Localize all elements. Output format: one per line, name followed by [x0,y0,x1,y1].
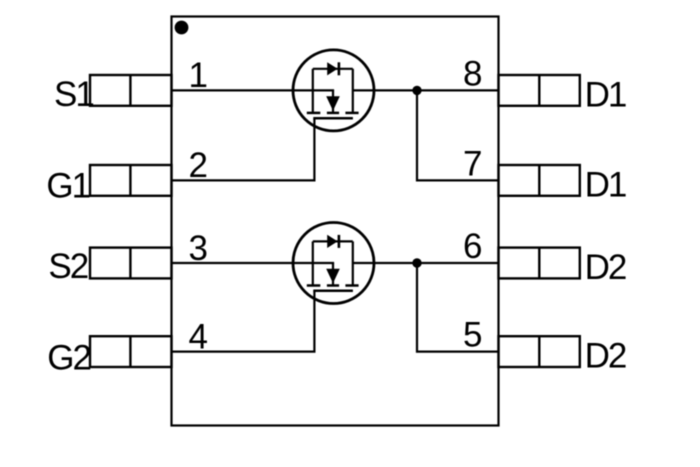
svg-text:2: 2 [189,146,208,185]
Q1 source stub / diode anode leg [312,69,314,113]
wire junction to pin7 [417,90,499,180]
svg-text:S1: S1 [54,75,93,114]
Q1 body diode rail [313,68,353,70]
Q2 body diode rail [313,240,353,242]
Q1 channel segments [307,112,321,115]
svg-text:D2: D2 [585,337,626,376]
svg-text:S2: S2 [48,247,87,286]
Q2 channel segments [307,284,321,287]
node junction pins 6-5 [412,258,421,267]
svg-text:4: 4 [189,317,208,356]
wire Q2 drain to pin6 [353,262,499,264]
pin 1 indicator dot [175,21,189,35]
Q2 envelope circle [293,223,374,304]
Q2 body diode cathode bar [338,235,341,248]
wire pin1 source to Q1 [172,89,335,91]
svg-text:7: 7 [463,144,482,183]
Q1 gate bar [313,117,353,120]
Q1 body connection with arrow [332,90,334,113]
svg-text:D2: D2 [585,248,626,287]
pin box D1 pin7 [499,165,580,196]
Q1 envelope circle [293,50,374,131]
pin box D2 pin5 [499,336,580,367]
Q2 gate bar [313,290,353,293]
svg-text:G2: G2 [47,338,90,377]
wire junction to pin5 [417,263,499,352]
svg-text:3: 3 [189,229,208,268]
wire pin2 gate to Q1 [172,118,315,180]
svg-text:5: 5 [463,316,482,355]
pin box S1 pin1 [90,75,172,106]
wire pin3 source to Q2 [172,262,335,264]
svg-text:D1: D1 [585,75,626,114]
package outline SO-8 [172,17,499,426]
svg-text:6: 6 [463,227,482,266]
svg-text:8: 8 [463,54,482,93]
pin box D2 pin6 [499,248,580,279]
Q2 drain stub / diode cathode leg [352,241,354,285]
Q1 body diode triangle [327,62,337,75]
pin box S2 pin3 [90,248,172,279]
wire Q1 drain to pin8 [353,89,499,91]
pin box G2 pin4 [90,336,172,367]
Q2 body connection with arrow [332,263,334,286]
svg-text:1: 1 [189,56,208,95]
Q1 drain stub / diode cathode leg [352,69,354,113]
transistor Q2 (N-channel MOSFET with body diode) [293,223,374,304]
transistor Q1 (N-channel MOSFET with body diode) [293,50,374,131]
Q2 source stub / diode anode leg [312,241,314,285]
pin box D1 pin8 [499,75,580,106]
node junction pins 8-7 [412,86,421,95]
wire pin4 gate to Q2 [172,291,315,352]
svg-text:D1: D1 [585,165,626,204]
pin box G1 pin2 [90,165,172,196]
Q2 body diode triangle [327,235,337,248]
Q1 body diode cathode bar [338,62,341,75]
svg-text:G1: G1 [46,166,89,205]
